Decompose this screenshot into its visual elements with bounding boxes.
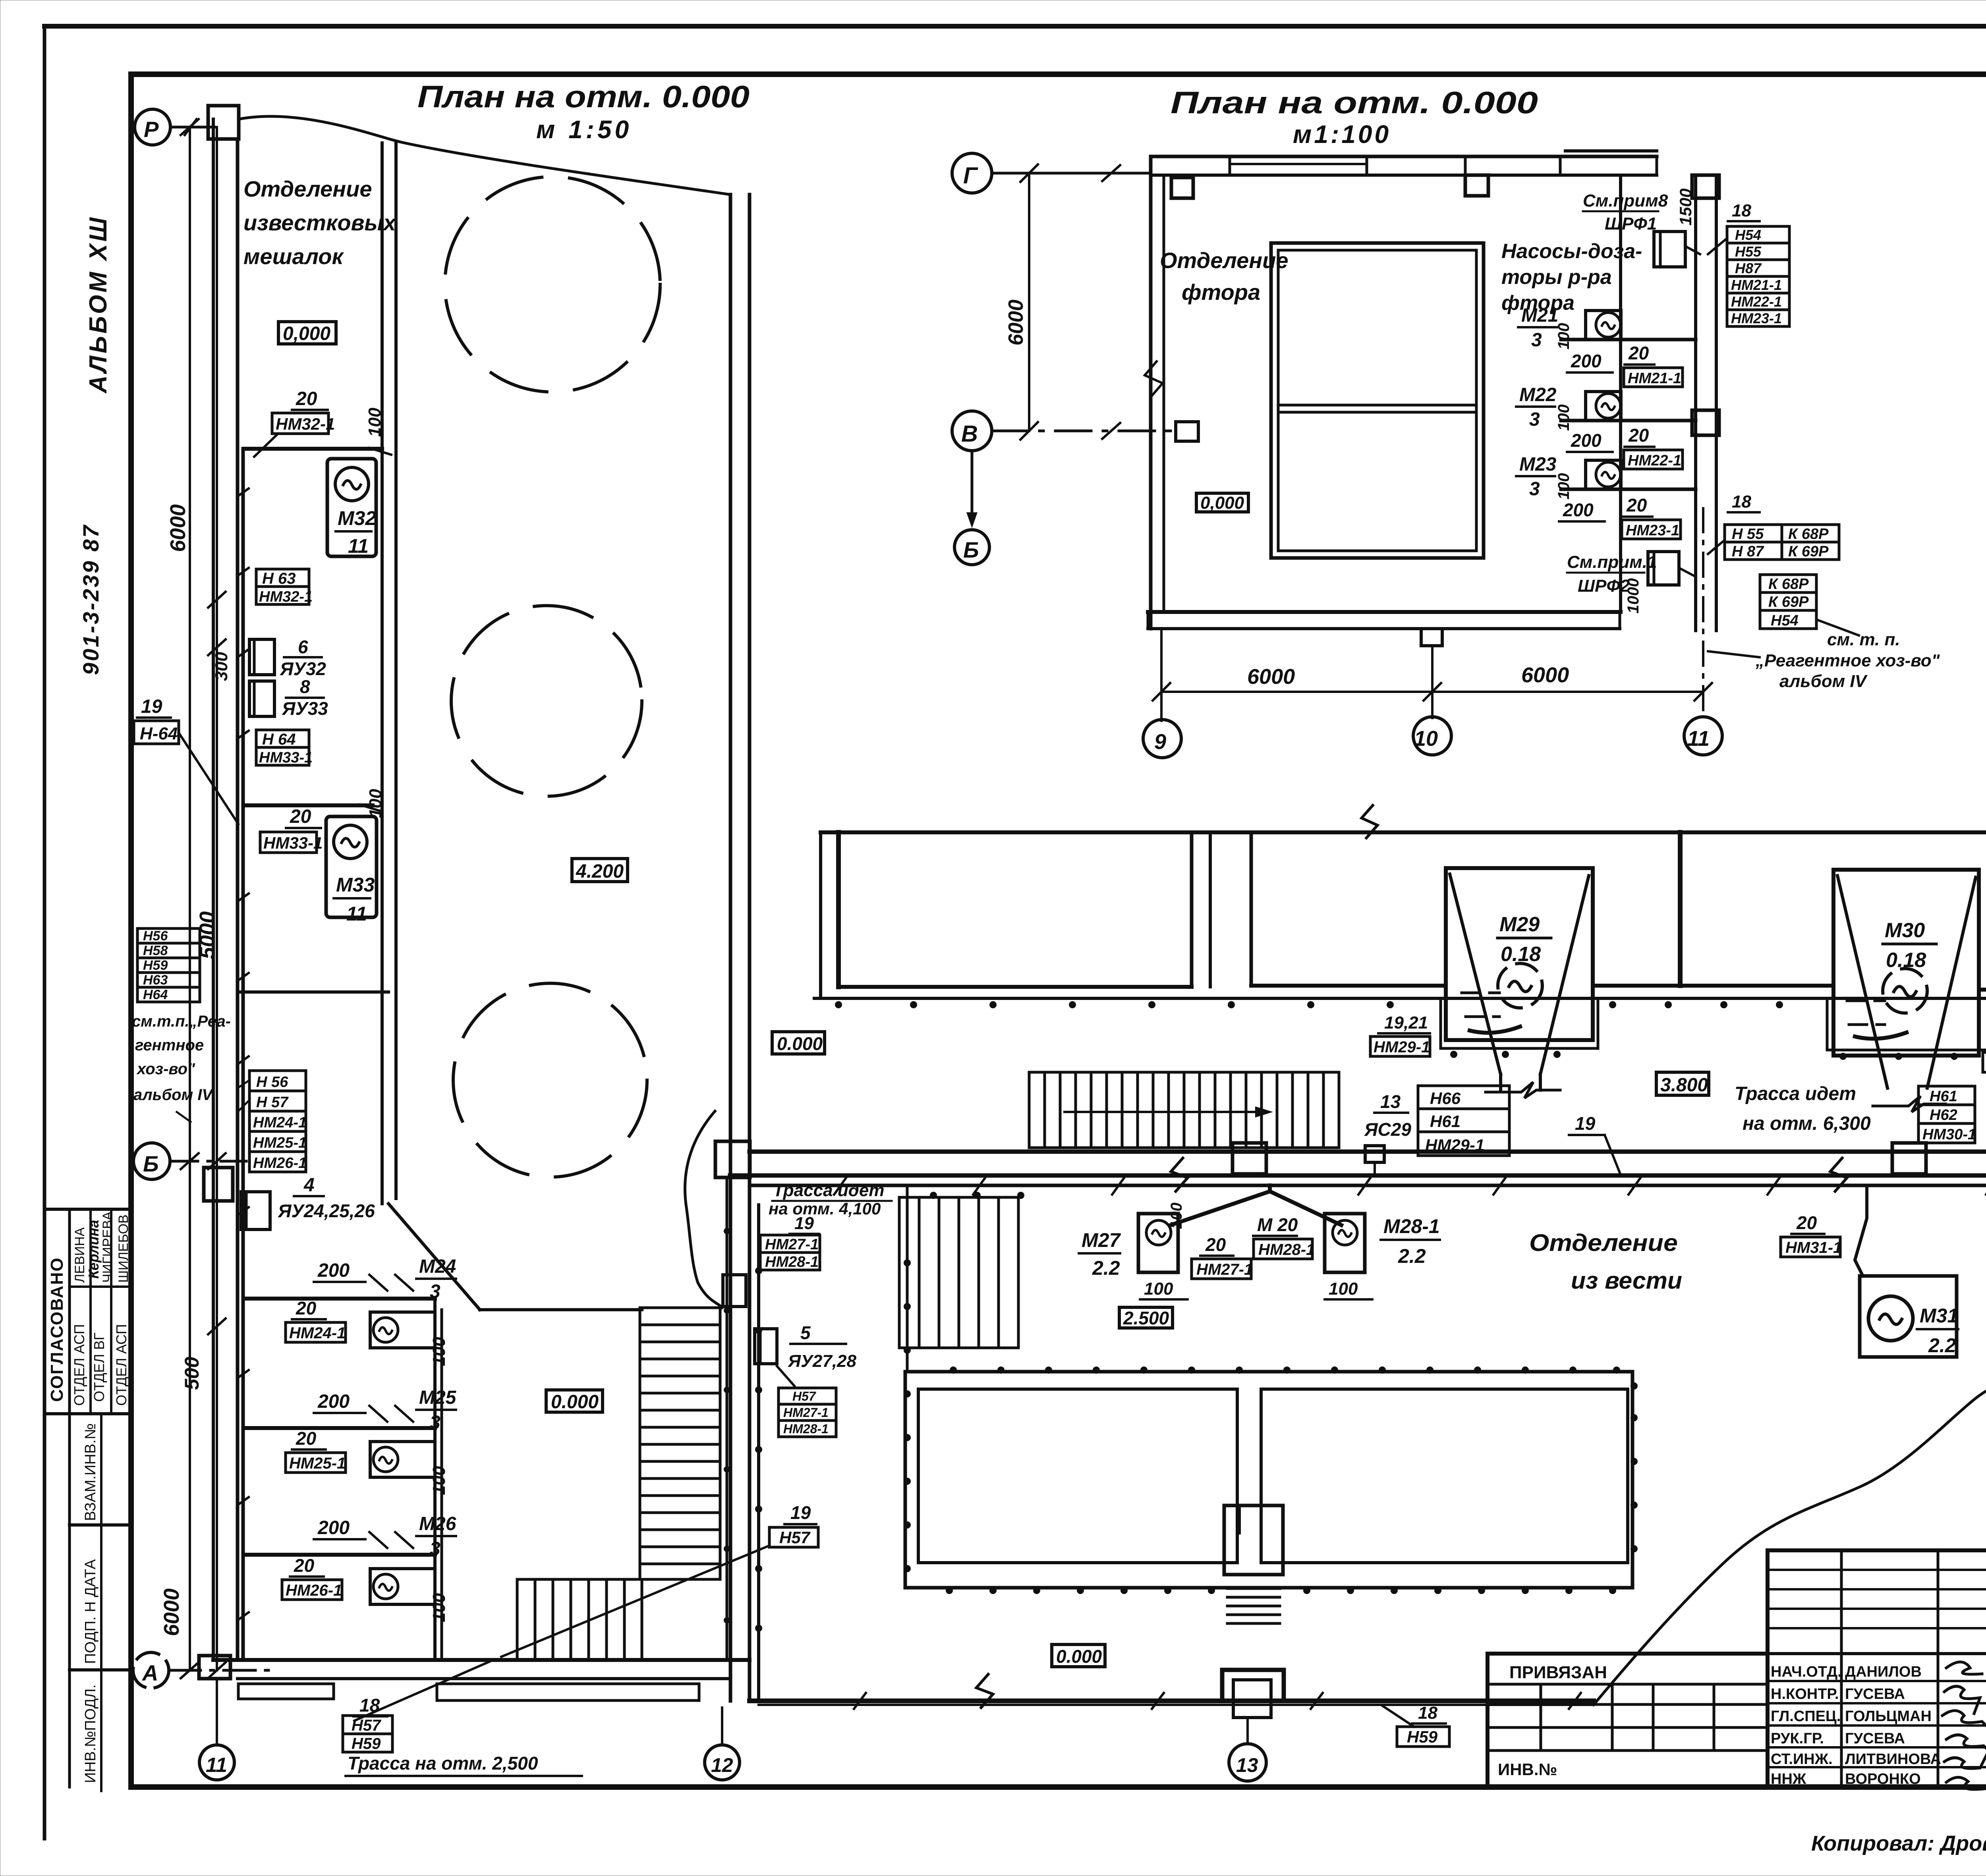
svg-text:ЧИГИРЕВА: ЧИГИРЕВА bbox=[100, 1211, 115, 1283]
svg-text:1500: 1500 bbox=[1676, 189, 1695, 226]
top band room bottoms bbox=[838, 985, 1192, 989]
level 0.000 bottom mid bbox=[1052, 1644, 1105, 1667]
pilaster on wall bbox=[723, 1275, 746, 1307]
svg-text:НМ26-1: НМ26-1 bbox=[253, 1155, 307, 1172]
svg-text:4.200: 4.200 bbox=[576, 861, 624, 882]
col line 2 bbox=[89, 1209, 92, 1414]
break mark on wall bbox=[1145, 361, 1163, 397]
signatures squiggles bbox=[1946, 1662, 1982, 1674]
svg-text:3: 3 bbox=[1529, 409, 1540, 430]
svg-text:6000: 6000 bbox=[160, 1588, 184, 1636]
svg-text:18: 18 bbox=[359, 1695, 380, 1716]
left table top line bbox=[44, 1208, 131, 1211]
svg-text:м 1:50: м 1:50 bbox=[536, 115, 632, 144]
svg-text:100: 100 bbox=[366, 789, 385, 818]
svg-text:Н 55: Н 55 bbox=[1732, 526, 1764, 542]
cable trace along wall bbox=[241, 449, 245, 1660]
boxes NM27-1 NM28-1 left bbox=[760, 1235, 820, 1253]
svg-text:НМ27-1: НМ27-1 bbox=[1196, 1261, 1253, 1278]
svg-text:100: 100 bbox=[429, 1593, 449, 1622]
bottom wall of mid building bbox=[750, 1698, 1594, 1703]
left wall inner bbox=[236, 139, 240, 1660]
svg-text:100: 100 bbox=[429, 1466, 449, 1495]
motor M28-1 bbox=[1325, 1214, 1365, 1272]
svg-text:ШИЛЕБОВ: ШИЛЕБОВ bbox=[116, 1214, 131, 1283]
svg-text:ЯС29: ЯС29 bbox=[1364, 1119, 1411, 1140]
building right wall bbox=[1619, 175, 1622, 612]
svg-text:100: 100 bbox=[1329, 1279, 1358, 1299]
svg-text:фтора: фтора bbox=[1182, 280, 1260, 305]
basin inner right bbox=[1261, 1389, 1628, 1563]
basin outer bbox=[905, 1372, 1632, 1588]
level 2.500 bbox=[1119, 1307, 1173, 1328]
building left wall bbox=[1149, 156, 1153, 629]
svg-text:100: 100 bbox=[1555, 473, 1573, 500]
svg-text:ВЗАМ.ИНВ.№: ВЗАМ.ИНВ.№ bbox=[82, 1423, 99, 1521]
svg-text:20: 20 bbox=[1628, 343, 1649, 363]
mid building top wall bbox=[821, 830, 1986, 834]
axis V circle bbox=[952, 411, 992, 451]
svg-text:М26: М26 bbox=[419, 1513, 456, 1534]
svg-text:Керлина: Керлина bbox=[85, 1220, 102, 1279]
svg-text:НМ26-1: НМ26-1 bbox=[286, 1582, 342, 1599]
svg-text:20: 20 bbox=[294, 1555, 315, 1576]
svg-text:Н57: Н57 bbox=[792, 1389, 817, 1403]
svg-text:100: 100 bbox=[365, 407, 384, 437]
svg-text:18: 18 bbox=[1732, 492, 1751, 511]
svg-text:Г: Г bbox=[963, 163, 978, 189]
svg-text:18: 18 bbox=[1418, 1703, 1437, 1723]
motor M32 bbox=[327, 459, 376, 556]
svg-text:2.2: 2.2 bbox=[1928, 1334, 1956, 1357]
right wall of tall building bbox=[729, 195, 732, 1701]
dim line vertical 2 bbox=[216, 127, 218, 1670]
svg-text:2.500: 2.500 bbox=[1123, 1308, 1169, 1328]
svg-text:18: 18 bbox=[1732, 201, 1751, 220]
grid circle 10 bbox=[1413, 717, 1451, 755]
basin perimeter dots bbox=[755, 1001, 1986, 1632]
svg-text:на отм. 6,300: на отм. 6,300 bbox=[1743, 1113, 1871, 1134]
svg-text:См.прим.1: См.прим.1 bbox=[1567, 552, 1657, 572]
bottom dim line bbox=[1161, 691, 1703, 693]
svg-text:10: 10 bbox=[1414, 727, 1438, 751]
svg-text:ГОЛЬЦМАН: ГОЛЬЦМАН bbox=[1845, 1708, 1932, 1725]
motor M27 bbox=[1138, 1214, 1178, 1272]
svg-text:НМ22-1: НМ22-1 bbox=[1731, 293, 1782, 310]
svg-text:3.800: 3.800 bbox=[1660, 1075, 1708, 1096]
svg-text:ЯУ33: ЯУ33 bbox=[282, 698, 328, 719]
svg-text:М24: М24 bbox=[419, 1256, 456, 1277]
cable V to M27 M28 bbox=[1171, 1185, 1270, 1225]
svg-text:ИНВ.№ПОДЛ.: ИНВ.№ПОДЛ. bbox=[82, 1684, 99, 1783]
svg-text:Отделение: Отделение bbox=[1160, 248, 1288, 273]
svg-text:1000: 1000 bbox=[1625, 578, 1642, 614]
porch bbox=[1222, 1670, 1284, 1701]
motor M33 bbox=[326, 816, 377, 917]
svg-text:200: 200 bbox=[317, 1517, 350, 1538]
corridor trace bbox=[750, 1184, 1986, 1187]
axis A circle bbox=[133, 1652, 169, 1688]
boxes N57 NM27-1 NM28-1 bbox=[779, 1388, 836, 1437]
svg-text:НМ32-1: НМ32-1 bbox=[259, 589, 313, 605]
svg-text:Отделение: Отделение bbox=[243, 176, 372, 201]
grid circle 12 bbox=[705, 1745, 740, 1780]
M25 row bbox=[244, 1426, 435, 1430]
svg-text:Н58: Н58 bbox=[143, 943, 168, 958]
svg-text:ОТДЕЛ ВГ: ОТДЕЛ ВГ bbox=[91, 1333, 107, 1402]
svg-text:20: 20 bbox=[296, 388, 317, 409]
svg-text:200: 200 bbox=[1571, 430, 1602, 451]
ticks on bottom wall bbox=[854, 1693, 1581, 1709]
motor M31 bbox=[1860, 1276, 1957, 1357]
svg-text:К 69Р: К 69Р bbox=[1788, 543, 1829, 560]
svg-text:Н.КОНТР.: Н.КОНТР. bbox=[1771, 1686, 1839, 1702]
svg-text:Н55: Н55 bbox=[1735, 243, 1762, 260]
svg-text:901-3-239 87: 901-3-239 87 bbox=[78, 524, 103, 675]
svg-text:М21: М21 bbox=[1521, 305, 1558, 326]
svg-text:м1:100: м1:100 bbox=[1293, 120, 1391, 149]
svg-text:100: 100 bbox=[1555, 404, 1573, 431]
svg-text:НМ33-1: НМ33-1 bbox=[259, 749, 313, 766]
M24 row bbox=[244, 1297, 435, 1301]
svg-text:Н 63: Н 63 bbox=[262, 570, 296, 587]
top band left wall bbox=[836, 832, 841, 987]
svg-text:ГЛ.СПЕЦ.: ГЛ.СПЕЦ. bbox=[1771, 1708, 1841, 1725]
svg-text:ДАНИЛОВ: ДАНИЛОВ bbox=[1845, 1664, 1922, 1680]
svg-text:20: 20 bbox=[296, 1298, 317, 1318]
svg-text:13: 13 bbox=[1236, 1754, 1258, 1776]
svg-text:гентное: гентное bbox=[135, 1036, 204, 1054]
svg-text:СОГЛАСОВАНО: СОГЛАСОВАНО bbox=[47, 1257, 67, 1402]
svg-text:НМ30-1: НМ30-1 bbox=[1922, 1126, 1976, 1143]
axis G circle bbox=[952, 153, 992, 193]
svg-text:Насосы-доза-: Насосы-доза- bbox=[1501, 240, 1642, 263]
door bump bbox=[1421, 629, 1442, 646]
svg-text:Н59: Н59 bbox=[352, 1735, 381, 1752]
svg-text:М25: М25 bbox=[419, 1387, 457, 1408]
svg-text:„Реагентное хоз-во": „Реагентное хоз-во" bbox=[1755, 651, 1940, 670]
level 0.000 left bbox=[772, 1032, 825, 1054]
svg-text:2.2: 2.2 bbox=[1092, 1257, 1120, 1279]
column below band bbox=[1465, 175, 1488, 196]
table divider bbox=[70, 1523, 131, 1527]
axis P circle bbox=[135, 109, 170, 145]
column at axis B bbox=[204, 1168, 233, 1201]
svg-text:ОТДЕЛ АСП: ОТДЕЛ АСП bbox=[113, 1324, 129, 1406]
svg-text:НМ28-1: НМ28-1 bbox=[1258, 1241, 1315, 1258]
svg-text:12: 12 bbox=[711, 1754, 733, 1776]
level 0.000 box bbox=[278, 322, 336, 344]
svg-text:20: 20 bbox=[290, 806, 311, 827]
vert dim 6000 bbox=[1028, 173, 1030, 431]
stack N56 N58 N59 N63 N64 bbox=[137, 928, 200, 1002]
left trace vertical bbox=[757, 1205, 760, 1701]
svg-text:Н66: Н66 bbox=[1430, 1089, 1461, 1108]
top-left stairs bbox=[1029, 1072, 1339, 1148]
svg-text:19: 19 bbox=[1575, 1113, 1596, 1134]
svg-text:ВОРОНКО: ВОРОНКО bbox=[1845, 1771, 1921, 1787]
svg-text:ИНВ.№: ИНВ.№ bbox=[1498, 1760, 1557, 1779]
svg-text:6000: 6000 bbox=[166, 504, 190, 552]
svg-text:М28-1: М28-1 bbox=[1383, 1215, 1440, 1237]
lower stairs bbox=[517, 1579, 642, 1660]
svg-text:Н 64: Н 64 bbox=[262, 731, 296, 748]
bottom wall bbox=[213, 1658, 750, 1662]
lower col line2 bbox=[100, 1414, 102, 1791]
svg-text:9: 9 bbox=[1154, 730, 1166, 754]
svg-text:М33: М33 bbox=[336, 874, 375, 896]
bunker M30 bbox=[1833, 870, 1979, 1056]
svg-text:НМ23-1: НМ23-1 bbox=[1731, 310, 1782, 326]
arrow V to B bbox=[971, 451, 974, 518]
names divider bbox=[70, 1285, 131, 1288]
svg-text:500: 500 bbox=[181, 1357, 203, 1390]
svg-text:Трасса на отм. 2,500: Трасса на отм. 2,500 bbox=[348, 1753, 538, 1774]
svg-text:НМ32-1: НМ32-1 bbox=[276, 415, 335, 433]
svg-text:К 68Р: К 68Р bbox=[1768, 576, 1809, 593]
top band bbox=[1151, 155, 1657, 158]
svg-text:Б: Б bbox=[963, 537, 979, 562]
cable loop M29 bbox=[1441, 998, 1598, 1048]
table divider bbox=[44, 1412, 131, 1415]
svg-text:0.000: 0.000 bbox=[551, 1392, 599, 1413]
axis B2 circle bbox=[954, 530, 989, 565]
top band left end bbox=[819, 832, 822, 998]
svg-text:20: 20 bbox=[296, 1428, 317, 1449]
svg-text:НМ28-1: НМ28-1 bbox=[765, 1254, 819, 1270]
svg-text:НМ23-1: НМ23-1 bbox=[1626, 522, 1679, 539]
svg-text:на отм. 4,100: на отм. 4,100 bbox=[769, 1199, 881, 1218]
svg-text:19,21: 19,21 bbox=[1384, 1013, 1428, 1033]
basin inner left bbox=[918, 1389, 1237, 1563]
pump M21 bbox=[1586, 311, 1621, 340]
svg-text:ГУСЕВА: ГУСЕВА bbox=[1845, 1730, 1905, 1747]
svg-text:200: 200 bbox=[1571, 351, 1602, 371]
svg-text:НМ22-1: НМ22-1 bbox=[1628, 452, 1681, 469]
axis B circle bbox=[133, 1143, 170, 1179]
svg-text:ЛИТВИНОВА: ЛИТВИНОВА bbox=[1845, 1751, 1941, 1768]
svg-text:НМ28-1: НМ28-1 bbox=[783, 1422, 829, 1436]
stack N54..NM23-1 bbox=[1727, 226, 1789, 326]
svg-text:НМ29-1: НМ29-1 bbox=[1374, 1038, 1430, 1056]
svg-text:0,000: 0,000 bbox=[1200, 493, 1244, 513]
svg-text:Н57: Н57 bbox=[779, 1528, 811, 1547]
small column bbox=[1176, 422, 1198, 441]
svg-text:М23: М23 bbox=[1519, 454, 1557, 475]
col line 3 bbox=[110, 1209, 112, 1414]
svg-text:НМ24-1: НМ24-1 bbox=[289, 1324, 346, 1342]
svg-text:Н54: Н54 bbox=[1735, 227, 1761, 243]
mixer circle 1 bbox=[445, 177, 660, 392]
svg-text:НАЧ.ОТД.: НАЧ.ОТД. bbox=[1771, 1664, 1842, 1680]
bunker M29 bbox=[1446, 868, 1593, 1040]
bottom sill 1 bbox=[238, 1684, 334, 1699]
grid circle 13 bbox=[1229, 1744, 1266, 1781]
svg-text:ШРФ1: ШРФ1 bbox=[1605, 214, 1657, 234]
svg-text:хоз-во": хоз-во" bbox=[136, 1060, 195, 1078]
bottom-left column bbox=[199, 1656, 230, 1679]
svg-text:известковых: известковых bbox=[243, 210, 397, 235]
svg-text:200: 200 bbox=[317, 1260, 350, 1281]
grid circle 9 bbox=[1143, 720, 1181, 758]
stairs ladder bbox=[640, 1308, 720, 1579]
svg-text:20: 20 bbox=[1628, 425, 1649, 446]
svg-text:М32: М32 bbox=[338, 507, 376, 529]
svg-text:из вести: из вести bbox=[1571, 1267, 1682, 1294]
svg-text:торы р-ра: торы р-ра bbox=[1501, 266, 1612, 289]
svg-text:альбом IV: альбом IV bbox=[1779, 672, 1868, 691]
svg-text:2.2: 2.2 bbox=[1398, 1245, 1426, 1267]
svg-text:АЛЬБОМ ХШ: АЛЬБОМ ХШ bbox=[85, 215, 112, 394]
svg-text:ЯУ27,28: ЯУ27,28 bbox=[788, 1351, 857, 1371]
col line 1 bbox=[68, 1209, 71, 1414]
top break line bbox=[239, 116, 730, 195]
svg-text:РУК.ГР.: РУК.ГР. bbox=[1771, 1730, 1824, 1747]
svg-text:Н54: Н54 bbox=[1771, 612, 1799, 629]
svg-text:СТ.ИНЖ.: СТ.ИНЖ. bbox=[1771, 1751, 1833, 1768]
svg-text:См.прим8: См.прим8 bbox=[1583, 191, 1668, 210]
break mark bottom wall bbox=[976, 1674, 993, 1708]
svg-text:0.18: 0.18 bbox=[1886, 949, 1926, 972]
svg-text:М27: М27 bbox=[1082, 1229, 1121, 1251]
svg-text:В: В bbox=[961, 421, 978, 447]
svg-text:4: 4 bbox=[303, 1175, 315, 1196]
cable trunk vertical bbox=[1694, 175, 1697, 631]
svg-text:НМ21-1: НМ21-1 bbox=[1731, 277, 1782, 293]
svg-text:НМ27-1: НМ27-1 bbox=[765, 1236, 819, 1253]
level 3.800 bbox=[1656, 1072, 1709, 1095]
svg-text:200: 200 bbox=[1563, 500, 1594, 520]
building top-left column bbox=[208, 106, 239, 139]
box YaU32 bbox=[249, 639, 274, 675]
svg-text:Трасса идет: Трасса идет bbox=[773, 1181, 884, 1200]
svg-text:ОТДЕЛ АСП: ОТДЕЛ АСП bbox=[71, 1324, 87, 1406]
svg-text:М 20: М 20 bbox=[1257, 1214, 1298, 1235]
svg-text:ШРФ2: ШРФ2 bbox=[1578, 576, 1630, 596]
room divider vertical bbox=[433, 1299, 437, 1660]
level 4.200 box bbox=[572, 859, 628, 882]
svg-text:0,000: 0,000 bbox=[283, 323, 330, 344]
svg-text:8: 8 bbox=[300, 676, 310, 697]
svg-text:НМ24-1: НМ24-1 bbox=[253, 1114, 307, 1131]
mixer circle 3 bbox=[453, 983, 647, 1177]
outer border top bbox=[44, 24, 1986, 29]
svg-text:Отделение: Отделение bbox=[1529, 1229, 1678, 1256]
svg-text:см.т.п.„Реа-: см.т.п.„Реа- bbox=[132, 1013, 231, 1030]
svg-text:100: 100 bbox=[429, 1337, 449, 1366]
inner tank rect bbox=[1271, 243, 1484, 558]
basin left cable riser bbox=[906, 1187, 909, 1372]
svg-text:НМ33-1: НМ33-1 bbox=[263, 834, 323, 852]
boxes N61 N62 NM30-1 bbox=[1918, 1086, 1975, 1143]
svg-text:Н59: Н59 bbox=[143, 958, 168, 973]
svg-text:0.18: 0.18 bbox=[1501, 943, 1541, 966]
dim line vertical 1 bbox=[189, 127, 191, 1670]
level box bbox=[1196, 493, 1248, 512]
svg-text:200: 200 bbox=[317, 1391, 350, 1412]
chamber steps bbox=[1227, 1588, 1280, 1623]
svg-text:К 68Р: К 68Р bbox=[1788, 526, 1829, 542]
svg-text:М29: М29 bbox=[1499, 913, 1540, 936]
svg-text:100: 100 bbox=[1144, 1279, 1173, 1299]
boxes N55 K68R / N87 K69R bbox=[1725, 525, 1839, 560]
trace on left building right wall bbox=[726, 1177, 728, 1660]
boxes N64 NM33-1 bbox=[256, 730, 309, 747]
svg-text:5: 5 bbox=[800, 1322, 811, 1343]
svg-text:мешалок: мешалок bbox=[243, 244, 344, 269]
svg-text:100: 100 bbox=[1555, 323, 1573, 349]
stack N56 N57 NM24-1 NM25-1 NM26-1 bbox=[249, 1071, 306, 1172]
box YaU24 bbox=[241, 1192, 270, 1229]
svg-text:Н 87: Н 87 bbox=[1732, 543, 1764, 560]
svg-text:Н 57: Н 57 bbox=[256, 1094, 289, 1111]
svg-text:Н61: Н61 bbox=[1430, 1112, 1461, 1131]
svg-text:План на отм. 0.000: План на отм. 0.000 bbox=[1171, 85, 1538, 120]
svg-text:20: 20 bbox=[1205, 1234, 1226, 1255]
cable loop M30 bbox=[1827, 998, 1986, 1050]
svg-text:А: А bbox=[141, 1660, 158, 1685]
svg-text:ПОДП. Н ДАТА: ПОДП. Н ДАТА bbox=[82, 1559, 99, 1664]
table divider bbox=[70, 1668, 131, 1671]
grid circle 11 bbox=[1684, 717, 1722, 755]
svg-text:ЯУ24,25,26: ЯУ24,25,26 bbox=[278, 1200, 375, 1221]
room divider M33 top bbox=[244, 803, 373, 807]
pump M22 bbox=[1586, 392, 1621, 421]
svg-text:0.000: 0.000 bbox=[1056, 1646, 1102, 1667]
M26 row bbox=[244, 1553, 435, 1557]
svg-text:Н61: Н61 bbox=[1930, 1088, 1957, 1105]
break mark top wall bbox=[1362, 805, 1377, 838]
boxes N63 NM32-1 bbox=[256, 569, 309, 587]
svg-text:План на отм. 0.000: План на отм. 0.000 bbox=[417, 79, 750, 114]
level 0.000 box lower bbox=[546, 1390, 603, 1412]
column left bbox=[1171, 178, 1193, 198]
svg-text:20: 20 bbox=[1796, 1212, 1817, 1233]
inner wall upper room bbox=[381, 143, 384, 1204]
svg-text:11: 11 bbox=[1687, 727, 1710, 751]
title block signers bbox=[1771, 1664, 1941, 1787]
box YaU27 bbox=[755, 1329, 777, 1364]
mixer circle 2 bbox=[451, 606, 642, 796]
svg-text:Копировал: Дровникова: Копировал: Дровникова bbox=[1811, 1832, 1986, 1855]
svg-text:20: 20 bbox=[1626, 495, 1647, 515]
svg-text:К 69Р: К 69Р bbox=[1768, 594, 1809, 610]
corridor columns bbox=[715, 1141, 750, 1177]
svg-text:ННЖ: ННЖ bbox=[1771, 1771, 1806, 1787]
title block privyazan table bbox=[1488, 1654, 1768, 1787]
svg-text:НМ27-1: НМ27-1 bbox=[783, 1405, 829, 1420]
left revision cloud bbox=[685, 1111, 722, 1308]
svg-text:6000: 6000 bbox=[1005, 299, 1028, 345]
svg-text:НМ25-1: НМ25-1 bbox=[289, 1455, 346, 1472]
band second line with trace bbox=[814, 997, 1986, 1000]
svg-text:НМ31-1: НМ31-1 bbox=[1785, 1239, 1842, 1256]
band room dividers bbox=[1190, 832, 1194, 987]
title block central grid bbox=[1768, 1550, 1986, 1787]
box YaU33 bbox=[249, 681, 274, 716]
svg-text:Н87: Н87 bbox=[1735, 260, 1762, 276]
svg-text:6000: 6000 bbox=[1247, 665, 1295, 689]
svg-text:6: 6 bbox=[298, 637, 308, 657]
svg-text:19: 19 bbox=[141, 696, 162, 717]
svg-text:11: 11 bbox=[206, 1754, 227, 1777]
svg-text:М31: М31 bbox=[1920, 1305, 1958, 1327]
svg-text:13: 13 bbox=[1380, 1091, 1401, 1112]
basin chamber bbox=[1224, 1505, 1283, 1575]
svg-text:11: 11 bbox=[346, 903, 367, 925]
svg-text:ПРИВЯЗАН: ПРИВЯЗАН bbox=[1509, 1663, 1607, 1682]
svg-text:0.000: 0.000 bbox=[777, 1033, 823, 1054]
